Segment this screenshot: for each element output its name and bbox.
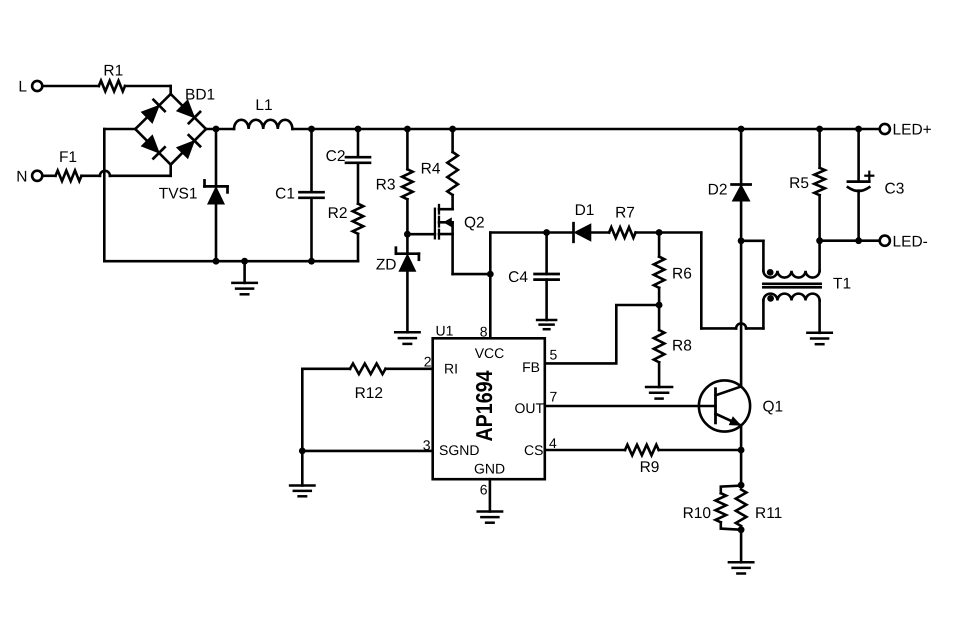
svg-text:R10: R10 <box>683 505 712 522</box>
svg-text:FB: FB <box>522 359 540 375</box>
svg-text:SGND: SGND <box>439 442 479 458</box>
svg-text:R5: R5 <box>789 175 809 192</box>
svg-text:RI: RI <box>444 361 458 377</box>
svg-text:C1: C1 <box>275 186 295 203</box>
svg-text:R11: R11 <box>755 505 782 522</box>
svg-text:R8: R8 <box>672 338 692 355</box>
svg-text:U1: U1 <box>436 323 454 339</box>
svg-text:N: N <box>16 168 27 185</box>
svg-text:LED-: LED- <box>893 233 928 250</box>
svg-text:C3: C3 <box>885 181 905 198</box>
svg-text:AP1694: AP1694 <box>471 370 497 441</box>
svg-text:TVS1: TVS1 <box>159 186 198 203</box>
svg-text:C4: C4 <box>508 269 528 286</box>
svg-text:R12: R12 <box>355 385 383 402</box>
svg-text:R9: R9 <box>640 459 660 476</box>
svg-text:8: 8 <box>480 324 488 340</box>
svg-text:VCC: VCC <box>475 345 505 361</box>
svg-text:4: 4 <box>549 435 557 451</box>
svg-text:Q2: Q2 <box>464 215 485 232</box>
svg-text:2: 2 <box>424 354 432 370</box>
svg-text:R3: R3 <box>376 177 396 194</box>
svg-text:L: L <box>18 79 27 96</box>
svg-text:T1: T1 <box>833 276 851 293</box>
svg-text:LED+: LED+ <box>893 122 932 139</box>
svg-text:GND: GND <box>474 461 505 477</box>
svg-text:D2: D2 <box>708 182 728 199</box>
svg-text:R1: R1 <box>103 63 123 80</box>
svg-text:CS: CS <box>524 442 543 458</box>
svg-text:R4: R4 <box>421 161 441 178</box>
svg-text:C2: C2 <box>326 148 346 165</box>
svg-text:R7: R7 <box>615 205 635 222</box>
svg-text:R6: R6 <box>672 266 692 283</box>
svg-text:R2: R2 <box>328 205 348 222</box>
svg-text:6: 6 <box>480 482 488 498</box>
svg-text:ZD: ZD <box>376 257 397 274</box>
svg-text:5: 5 <box>550 347 558 363</box>
svg-text:F1: F1 <box>59 149 77 166</box>
svg-text:BD1: BD1 <box>185 87 215 104</box>
svg-text:D1: D1 <box>575 202 595 219</box>
svg-text:Q1: Q1 <box>763 399 784 416</box>
svg-text:L1: L1 <box>255 97 272 114</box>
svg-text:OUT: OUT <box>514 400 544 416</box>
svg-text:7: 7 <box>550 389 558 405</box>
